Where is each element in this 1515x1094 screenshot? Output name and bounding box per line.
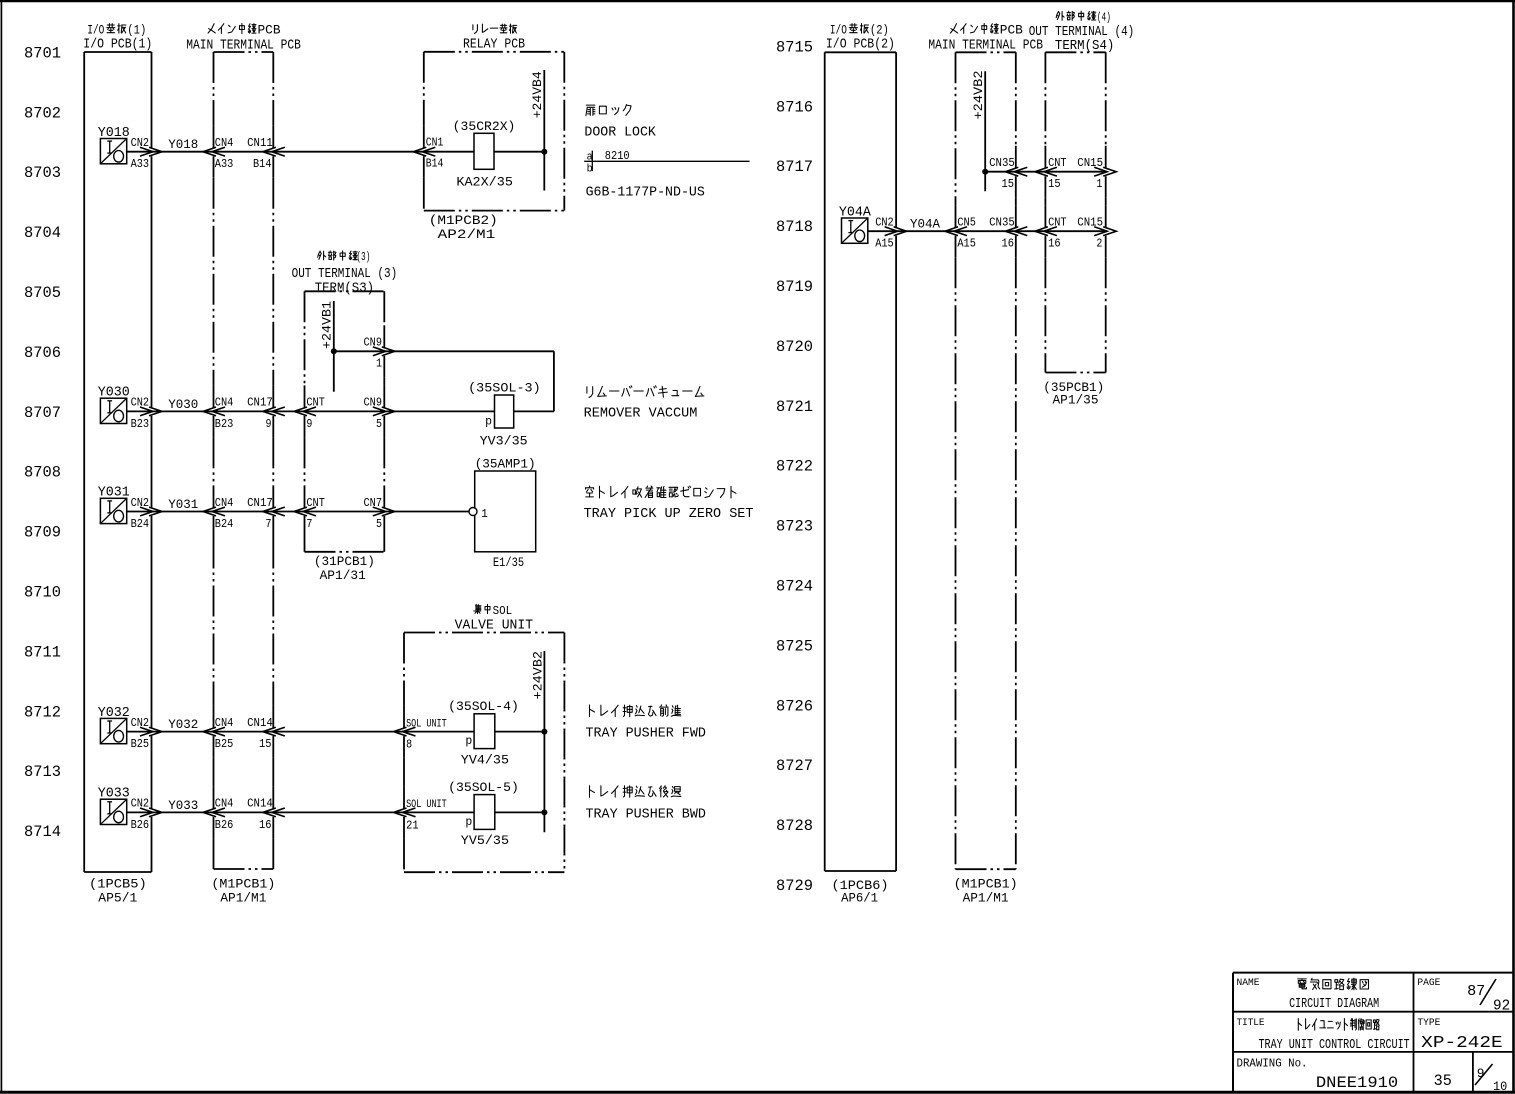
svg-text:B14: B14 [253, 157, 272, 171]
svg-text:TRAY PUSHER BWD: TRAY PUSHER BWD [586, 807, 706, 823]
svg-text:RELAY PCB: RELAY PCB [463, 38, 525, 53]
svg-text:87: 87 [1467, 983, 1485, 1000]
title block frame [1233, 973, 1513, 1093]
svg-text:21: 21 [406, 818, 419, 832]
svg-text:DOOR LOCK: DOOR LOCK [584, 125, 656, 141]
svg-text:8721: 8721 [776, 398, 813, 416]
svg-text:CN17: CN17 [247, 496, 273, 510]
I/O PCB(1) bottom label (1PCB5) AP5/1 [89, 877, 147, 906]
connector SOL UNIT/21 [394, 799, 448, 832]
svg-text:1: 1 [1096, 177, 1102, 191]
connector CN4/B23 (Y030) [203, 396, 233, 431]
svg-text:2: 2 [1096, 237, 1102, 251]
svg-text:B25: B25 [131, 737, 150, 751]
junction Y033/+24VB2 [541, 809, 547, 815]
connector CN5/A15 [945, 216, 976, 251]
svg-text:(1): (1) [127, 23, 146, 38]
svg-text:E1/35: E1/35 [493, 555, 524, 570]
svg-text:I/O PCB(2): I/O PCB(2) [826, 38, 895, 53]
svg-text:8: 8 [406, 738, 412, 752]
svg-text:(4): (4) [1097, 11, 1111, 25]
svg-text:(35SOL-4): (35SOL-4) [448, 699, 519, 714]
svg-text:I/O: I/O [87, 23, 104, 38]
svg-text:8705: 8705 [24, 284, 61, 302]
connector CN2/B24 (Y031) [131, 496, 162, 531]
title block sheet 35 [1434, 1072, 1452, 1090]
junction Y032/+24VB2 [541, 729, 547, 735]
I/O output symbol Y032 [98, 706, 130, 744]
title block sheet 9/10 [1475, 1064, 1507, 1094]
tray pick up zero set description [584, 486, 754, 522]
RELAY PCB header label [463, 24, 525, 52]
connector CN4/B24 (Y031) [203, 496, 233, 531]
svg-text:5: 5 [376, 417, 382, 431]
svg-text:8711: 8711 [24, 643, 61, 661]
door lock description [584, 105, 656, 141]
connector CN4/B25 (Y032) [203, 716, 233, 751]
svg-text:B24: B24 [215, 517, 234, 531]
wire label Y032 [168, 717, 198, 732]
svg-text:I/O PCB(1): I/O PCB(1) [83, 38, 152, 53]
svg-text:TERM(S3): TERM(S3) [315, 281, 374, 296]
svg-text:8717: 8717 [776, 158, 813, 176]
svg-text:Y031: Y031 [168, 497, 198, 512]
connector CNT/15 (S4) [1035, 156, 1067, 191]
svg-text:AP1/M1: AP1/M1 [963, 890, 1009, 905]
svg-text:8724: 8724 [776, 578, 813, 596]
door lock contact a/b 8210 [584, 149, 749, 176]
svg-text:8706: 8706 [24, 344, 61, 362]
svg-text:PAGE: PAGE [1417, 977, 1440, 989]
I/O PCB(2) bottom label (1PCB6) AP6/1 [832, 878, 889, 906]
connector CN2/B26 (Y033) [131, 797, 162, 832]
svg-text:15: 15 [259, 737, 272, 751]
svg-text:Y032: Y032 [168, 717, 198, 732]
wire label Y018 [168, 137, 198, 152]
connector CN15/2 [1077, 216, 1116, 251]
connector CN2/A33 (Y018) [131, 136, 162, 171]
row number labels 8701-8714 [24, 44, 61, 841]
svg-text:1: 1 [376, 357, 382, 371]
svg-text:TITLE: TITLE [1237, 1017, 1265, 1029]
svg-text:16: 16 [1002, 237, 1015, 251]
svg-text:8707: 8707 [24, 404, 61, 422]
TERM(S3) bottom label (31PCB1) AP1/31 [314, 554, 375, 583]
svg-text:CN15: CN15 [1077, 216, 1103, 230]
svg-text:A33: A33 [215, 157, 234, 171]
connector CN14/16 [247, 797, 285, 832]
connector CN9/1 [364, 336, 395, 371]
svg-text:8729: 8729 [776, 877, 813, 895]
svg-text:8723: 8723 [776, 518, 813, 536]
svg-text:Y018: Y018 [168, 137, 198, 152]
OUT TERMINAL (3) header labels [292, 250, 398, 296]
svg-text:CNT: CNT [1048, 216, 1067, 230]
svg-text:A15: A15 [957, 237, 976, 251]
svg-text:Y030: Y030 [168, 397, 198, 412]
junction +24VB1/CN9 wire [331, 348, 337, 354]
svg-text:Y04A: Y04A [910, 217, 940, 232]
svg-text:5: 5 [376, 517, 382, 531]
svg-text:G6B-1177P-ND-US: G6B-1177P-ND-US [586, 184, 705, 200]
svg-text:AP6/1: AP6/1 [841, 891, 878, 906]
svg-text:B25: B25 [215, 737, 234, 751]
wire 8706 row CN9 pin1 [334, 351, 554, 411]
svg-text:15: 15 [1002, 177, 1015, 191]
svg-text:TRAY PICK UP ZERO SET: TRAY PICK UP ZERO SET [584, 506, 754, 522]
OUT TERMINAL (3) TERM(S3) box [305, 291, 385, 552]
wire label Y04A [910, 217, 940, 232]
svg-text:(31PCB1): (31PCB1) [314, 554, 375, 569]
svg-text:OUT TERMINAL (3): OUT TERMINAL (3) [292, 267, 398, 282]
connector CN17/9 (Y030) [247, 396, 285, 431]
svg-text:8709: 8709 [24, 524, 61, 542]
row number labels 8715-8729 [776, 38, 813, 895]
wire label Y031 [168, 497, 198, 512]
svg-text:8715: 8715 [776, 38, 813, 56]
wire Y018 row [127, 151, 545, 153]
VALVE UNIT header labels [455, 604, 533, 634]
svg-text:8210: 8210 [605, 149, 630, 163]
svg-text:OUT TERMINAL (4): OUT TERMINAL (4) [1029, 25, 1135, 40]
svg-text:8719: 8719 [776, 278, 813, 296]
I/O PCB(2) board box [825, 52, 896, 871]
wire Y030 row [127, 410, 554, 412]
svg-text:8722: 8722 [776, 458, 813, 476]
wire Y04A row [868, 230, 1106, 232]
connector CN2/A15 (Y04A) [875, 216, 906, 251]
svg-text:I/O: I/O [830, 23, 847, 38]
svg-text:9: 9 [266, 417, 272, 431]
svg-text:(M1PCB1): (M1PCB1) [954, 877, 1018, 892]
connector CN9/5 [364, 396, 395, 431]
connector CN2/B23 (Y030) [131, 396, 162, 431]
svg-text:+24VB2: +24VB2 [530, 651, 545, 700]
svg-text:B26: B26 [215, 818, 234, 832]
svg-text:16: 16 [259, 818, 272, 832]
tray pusher fwd description [586, 705, 706, 742]
MAIN TERMINAL PCB bottom label (M1PCB1) AP1/M1 (left) [211, 877, 275, 906]
svg-text:TRAY UNIT CONTROL CIRCUIT: TRAY UNIT CONTROL CIRCUIT [1259, 1038, 1410, 1053]
connector CN7/5 [364, 496, 395, 531]
svg-text:MAIN TERMINAL PCB: MAIN TERMINAL PCB [928, 39, 1043, 54]
title block TYPE cell XP-242E [1417, 1017, 1502, 1052]
svg-text:10: 10 [1493, 1079, 1507, 1094]
OUT TERMINAL (4) TERM(S4) box [1045, 52, 1105, 372]
title block TITLE cell [1237, 1017, 1410, 1053]
svg-text:AP1/31: AP1/31 [320, 568, 366, 583]
I/O PCB(1) board box [84, 52, 151, 872]
MAIN TERMINAL PCB bottom label (M1PCB1) AP1/M1 (right) [954, 877, 1018, 906]
svg-text:8701: 8701 [24, 44, 61, 62]
pin 1 open circle (35AMP1) [469, 507, 488, 521]
connector CN4/B26 (Y033) [203, 797, 233, 832]
tray pusher bwd description [586, 786, 706, 823]
svg-text:B26: B26 [131, 818, 150, 832]
svg-text:8712: 8712 [24, 703, 61, 721]
title block DRAWING No. cell [1237, 1058, 1399, 1093]
svg-text:XP-242E: XP-242E [1421, 1033, 1503, 1052]
I/O output symbol Y030 [98, 386, 130, 424]
svg-text:+24VB1: +24VB1 [319, 301, 334, 349]
connector CN4/A33 (Y018) [203, 136, 233, 171]
connector CN14/15 [247, 716, 285, 751]
MAIN TERMINAL PCB column (right) [956, 52, 1016, 869]
svg-text:(35SOL-3): (35SOL-3) [468, 380, 541, 395]
svg-text:15: 15 [1048, 177, 1061, 191]
svg-text:8718: 8718 [776, 218, 813, 236]
svg-text:8710: 8710 [24, 584, 61, 602]
svg-text:TRAY PUSHER FWD: TRAY PUSHER FWD [586, 726, 706, 742]
svg-text:CN35: CN35 [989, 156, 1015, 170]
svg-text:Y033: Y033 [168, 798, 198, 813]
svg-text:CN11: CN11 [247, 136, 273, 150]
connector CNT/16 (S4) [1035, 216, 1067, 251]
svg-text:8713: 8713 [24, 763, 61, 781]
svg-text:CNT: CNT [1048, 156, 1067, 170]
svg-text:(35CR2X): (35CR2X) [453, 119, 516, 134]
connector CNT/9 (S3) [294, 396, 325, 431]
OUT TERMINAL (4) header labels [1029, 11, 1135, 54]
svg-text:8725: 8725 [776, 637, 813, 655]
svg-text:CN15: CN15 [1077, 156, 1103, 170]
connector CNT/7 (S3) [294, 496, 325, 531]
solenoid YV3 (35SOL-3) [468, 380, 541, 448]
junction Y018/+24VB4 [541, 149, 547, 155]
connector CN17/7 (Y031) [247, 496, 285, 531]
svg-text:8714: 8714 [24, 823, 61, 841]
wire 8717 row [985, 171, 1105, 173]
connector CN11/B14 [247, 136, 285, 171]
svg-text:8726: 8726 [776, 697, 813, 715]
svg-text:CN14: CN14 [247, 716, 273, 730]
title block NAME cell [1237, 977, 1380, 1012]
connector SOL UNIT/8 [394, 718, 448, 751]
wire Y031 row [127, 511, 469, 513]
svg-text:(3): (3) [356, 250, 370, 264]
svg-text:(2): (2) [870, 23, 889, 38]
I/O output symbol Y04A [839, 205, 872, 243]
svg-text:SOL: SOL [493, 604, 512, 618]
svg-text:8728: 8728 [776, 817, 813, 835]
svg-text:CIRCUIT DIAGRAM: CIRCUIT DIAGRAM [1289, 997, 1379, 1012]
RELAY PCB bottom label (M1PCB2) AP2/M1 [429, 213, 498, 242]
svg-text:TERM(S4): TERM(S4) [1055, 39, 1114, 54]
svg-text:AP1/35: AP1/35 [1053, 393, 1099, 408]
svg-text:PCB: PCB [1000, 23, 1023, 38]
svg-text:B24: B24 [131, 517, 150, 531]
svg-text:VALVE UNIT: VALVE UNIT [455, 619, 533, 634]
connector CN15/1 [1077, 156, 1116, 191]
svg-text:YV4/35: YV4/35 [461, 753, 509, 768]
I/O PCB(1) header label [83, 23, 152, 53]
I/O PCB(2) header label [826, 23, 895, 53]
svg-text:CN14: CN14 [247, 797, 273, 811]
svg-text:B23: B23 [131, 417, 150, 431]
+24VB1 power net [319, 301, 334, 392]
title block PAGE cell 87/92 [1417, 977, 1510, 1015]
svg-text:(1PCB5): (1PCB5) [89, 877, 147, 892]
svg-text:DRAWING No.: DRAWING No. [1237, 1058, 1308, 1071]
+24VB2 power net (valve unit) [530, 651, 545, 832]
svg-text:+24VB4: +24VB4 [530, 71, 545, 118]
MAIN TERMINAL PCB header (right) [928, 23, 1043, 54]
svg-text:8720: 8720 [776, 338, 813, 356]
svg-text:35: 35 [1434, 1072, 1452, 1090]
amplifier unit E1/35 (35AMP1) [475, 457, 536, 570]
wire Y033 row [127, 811, 545, 813]
svg-text:B14: B14 [426, 158, 444, 171]
svg-text:A15: A15 [875, 237, 894, 251]
svg-text:8716: 8716 [776, 98, 813, 116]
svg-text:YV3/35: YV3/35 [480, 433, 528, 448]
relay coil KA2X (35CR2X) [453, 119, 516, 189]
svg-text:p: p [465, 816, 472, 829]
svg-text:AP2/M1: AP2/M1 [438, 227, 496, 242]
junction +24VB2/CN35 wire [982, 169, 988, 175]
svg-text:AP1/M1: AP1/M1 [220, 890, 266, 905]
svg-text:TYPE: TYPE [1417, 1017, 1440, 1029]
svg-text:9: 9 [306, 417, 312, 431]
svg-text:(35SOL-5): (35SOL-5) [448, 780, 519, 795]
svg-text:AP5/1: AP5/1 [98, 890, 137, 905]
VALVE UNIT box [404, 633, 564, 873]
TERM(S4) bottom label (35PCB1) AP1/35 [1043, 380, 1104, 408]
svg-text:YV5/35: YV5/35 [461, 833, 509, 848]
svg-text:CN17: CN17 [247, 396, 273, 410]
remover vaccum description [584, 386, 704, 422]
svg-text:+24VB2: +24VB2 [971, 71, 986, 120]
svg-text:KA2X/35: KA2X/35 [456, 174, 513, 189]
I/O output symbol Y033 [98, 787, 130, 825]
svg-text:(35AMP1): (35AMP1) [475, 457, 536, 472]
svg-text:A33: A33 [131, 157, 150, 171]
svg-text:(M1PCB2): (M1PCB2) [429, 213, 498, 228]
connector CN35/16 [989, 216, 1027, 251]
svg-text:8702: 8702 [24, 104, 61, 122]
door lock part number [586, 184, 705, 200]
connector CN35/15 [989, 156, 1027, 191]
I/O output symbol Y031 [98, 486, 130, 524]
svg-text:7: 7 [266, 517, 272, 531]
connector CN2/B25 (Y032) [131, 716, 162, 751]
svg-text:REMOVER VACCUM: REMOVER VACCUM [584, 406, 698, 422]
svg-text:8727: 8727 [776, 757, 813, 775]
svg-text:p: p [465, 735, 472, 748]
wire Y032 row [127, 731, 545, 733]
solenoid YV5 (35SOL-5) [448, 780, 519, 848]
svg-text:B23: B23 [215, 417, 234, 431]
MAIN TERMINAL PCB column (left) [214, 52, 274, 869]
svg-text:CN35: CN35 [989, 216, 1015, 230]
svg-text:8708: 8708 [24, 464, 61, 482]
svg-text:8704: 8704 [24, 224, 61, 242]
+24VB2 power net (right) [971, 71, 986, 192]
svg-text:NAME: NAME [1237, 977, 1260, 989]
svg-text:PCB: PCB [258, 23, 281, 38]
+24VB4 power net [530, 70, 545, 191]
svg-text:MAIN TERMINAL PCB: MAIN TERMINAL PCB [186, 39, 301, 54]
solenoid YV4 (35SOL-4) [448, 699, 519, 767]
RELAY PCB box [424, 52, 565, 211]
svg-text:92: 92 [1493, 998, 1510, 1015]
svg-text:8703: 8703 [24, 164, 61, 182]
svg-text:DNEE1910: DNEE1910 [1316, 1074, 1398, 1092]
wire label Y030 [168, 397, 198, 412]
svg-text:1: 1 [481, 507, 488, 521]
connector CN1/B14 (relay pcb) [413, 137, 443, 171]
svg-text:(M1PCB1): (M1PCB1) [211, 877, 275, 892]
svg-text:7: 7 [306, 517, 312, 531]
svg-text:p: p [485, 415, 492, 428]
svg-text:16: 16 [1048, 237, 1061, 251]
MAIN TERMINAL PCB header (left) [186, 23, 301, 54]
I/O output symbol Y018 [98, 126, 130, 164]
wire label Y033 [168, 798, 198, 813]
